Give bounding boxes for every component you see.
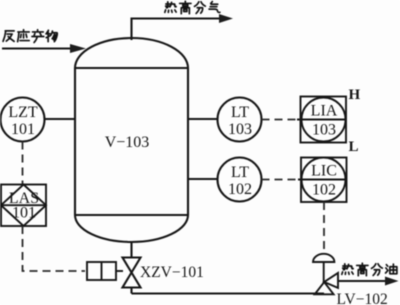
instrument LZT-101: [1, 98, 45, 142]
svg-text:LIA: LIA: [311, 103, 338, 120]
actuator box of XZV-101: [87, 262, 123, 280]
svg-text:LZT: LZT: [8, 104, 38, 121]
control valve LV-102 (angle valve): [315, 273, 338, 294]
svg-text:LT: LT: [231, 164, 249, 181]
svg-text:XZV−101: XZV−101: [140, 264, 204, 281]
tap line vessel to LT-102: [188, 178, 219, 180]
tap line vessel to LT-103: [188, 118, 219, 120]
controller LIC-102: [298, 158, 347, 203]
instrument LT-102: [218, 158, 262, 202]
svg-text:101: 101: [12, 205, 36, 222]
svg-text:103: 103: [312, 122, 336, 139]
pipe: bottom outlet line: [132, 292, 325, 294]
label 热高分油 (hot HP separator oil): [342, 263, 397, 275]
svg-text:L: L: [349, 139, 359, 155]
svg-text:H: H: [349, 87, 361, 103]
label 反应产物 (reaction products): [3, 30, 57, 43]
svg-text:103: 103: [228, 121, 252, 138]
pipe: overhead gas line with arrow: [132, 14, 234, 40]
signal line LT-102 to LIC-102 (dashed): [262, 179, 301, 181]
svg-text:LT: LT: [231, 104, 249, 121]
shared display LIA-103: [297, 97, 346, 143]
signal line LAS-101 to XZV actuator (dashed): [23, 226, 86, 271]
pipe: oil outlet arrow: [338, 277, 399, 286]
signal line LIC-102 to LV-102 (dashed): [323, 202, 325, 253]
signal line LT-103 to LIA-103 (dashed): [262, 119, 300, 121]
instrument LT-103: [218, 98, 262, 142]
pipe: feed arrow (reaction product inlet): [2, 44, 86, 53]
svg-text:102: 102: [312, 182, 336, 199]
svg-text:101: 101: [11, 121, 35, 138]
svg-text:LIC: LIC: [311, 163, 337, 180]
svg-text:LV−102: LV−102: [337, 291, 388, 305]
vessel V-103: [75, 38, 188, 242]
label 热高分气 (hot HP separator gas): [165, 1, 220, 13]
alarm switch LAS-101: [1, 185, 46, 227]
diaphragm actuator of LV-102: [313, 254, 334, 282]
signal line LZT-101 to LAS-101 (dashed): [22, 142, 24, 185]
svg-text:V−103: V−103: [105, 134, 150, 151]
tap line LZT-101 to vessel: [45, 118, 76, 120]
svg-text:102: 102: [228, 181, 252, 198]
valve XZV-101: [123, 242, 141, 294]
